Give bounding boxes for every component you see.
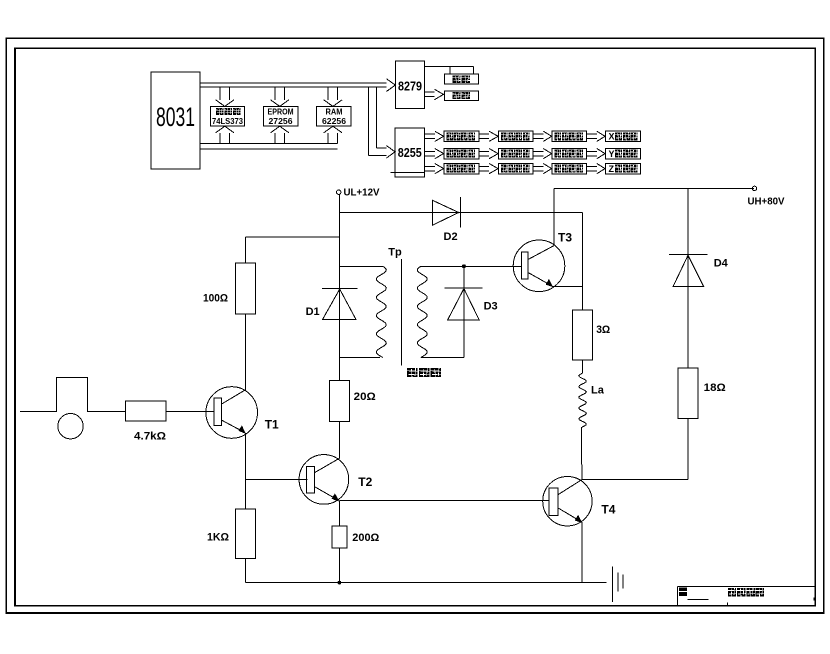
arrow to next box (X row col 1) — [479, 131, 498, 141]
transformer Tp secondary winding — [417, 266, 427, 357]
svg-text:La: La — [591, 385, 605, 397]
arrow 8255 to opto-isolator (Z row) — [425, 164, 444, 174]
svg-text:UL+12V: UL+12V — [344, 187, 380, 199]
transformer core — [401, 259, 403, 365]
arrow to next box (Y row col 1) — [479, 149, 498, 159]
arrow 8255 to opto-isolator (X row) — [425, 131, 444, 141]
wire 3ohm to La — [582, 360, 584, 373]
axis drive box (Z row) — [605, 163, 640, 174]
resistor 3ohm — [573, 310, 611, 360]
resistor 20ohm — [329, 381, 375, 422]
bus branch up-arrow 1 — [216, 126, 234, 143]
terminal UH+80V — [748, 186, 785, 207]
address bus lower (double line) — [200, 144, 338, 149]
node junction dot D3 — [462, 265, 465, 268]
resistor 200ohm — [332, 526, 379, 548]
keyboard box (jianpan) — [444, 91, 478, 100]
wire bottom rail — [245, 582, 606, 584]
svg-text:T1: T1 — [265, 418, 279, 432]
wire T3 emitter — [552, 285, 582, 287]
svg-text:T2: T2 — [358, 475, 372, 489]
terminal UL+12V — [337, 187, 380, 199]
wire 100ohm to T1 collector — [244, 314, 246, 390]
node junction on bottom rail — [338, 581, 341, 584]
wire T3 collector up — [553, 188, 555, 245]
bus branch down-arrow 1 — [216, 87, 234, 106]
svg-text:X: X — [609, 132, 615, 142]
wire junction to 18ohm branch — [583, 479, 688, 481]
svg-text:74LS373: 74LS373 — [212, 116, 243, 126]
input source circle — [58, 414, 83, 439]
title block border — [677, 586, 815, 605]
ground symbol — [613, 566, 623, 602]
driver circuit box (Z row) — [498, 163, 533, 173]
svg-text:EPROM: EPROM — [268, 107, 294, 117]
latch box 74LS373 — [210, 106, 244, 126]
wire T4 emitter down — [581, 522, 583, 583]
parallel interface 8255 — [391, 128, 425, 177]
transformer label (bianyaqi) — [407, 368, 441, 377]
svg-text:200Ω: 200Ω — [352, 532, 379, 544]
wire 18ohm to junction — [687, 418, 689, 479]
transistor T1 — [206, 387, 279, 439]
transformer Tp primary winding — [376, 247, 402, 358]
arrow to next box (Y row col 3) — [587, 149, 606, 159]
opto-isolator box (X row) — [444, 131, 479, 141]
bus arrowhead into 8279 — [387, 79, 396, 92]
arrow to next box (Z row col 3) — [587, 164, 606, 174]
svg-text:8031: 8031 — [156, 102, 195, 132]
svg-text:Y: Y — [609, 149, 615, 159]
bus branch down-arrow 2 — [271, 87, 289, 106]
title block small labels — [679, 587, 814, 605]
EPROM box 27256 — [263, 106, 298, 126]
resistor 4.7kohm — [125, 401, 166, 442]
arrow to next box (Z row col 2) — [533, 164, 552, 174]
bus arrowhead into 8255 — [387, 146, 396, 158]
svg-text:Tp: Tp — [388, 247, 402, 259]
display box (xianshi) — [444, 74, 478, 84]
opto-isolator box (Z row) — [444, 163, 479, 173]
svg-text:D2: D2 — [444, 231, 458, 243]
wire T1 emitter down — [244, 433, 246, 480]
stepper motor box (Y row) — [552, 148, 587, 158]
keyboard/display controller 8279 — [396, 61, 425, 109]
svg-text:3Ω: 3Ω — [596, 324, 610, 336]
wire D4 vertical — [687, 188, 689, 368]
svg-text:UH+80V: UH+80V — [748, 196, 785, 208]
wire 4.7k to T1 base — [166, 411, 214, 413]
svg-text:20Ω: 20Ω — [354, 391, 376, 403]
svg-text:100Ω: 100Ω — [203, 293, 228, 305]
svg-text:D4: D4 — [714, 258, 729, 270]
stepper motor box (X row) — [552, 131, 587, 141]
wire 8279 to display box — [424, 66, 473, 74]
arrow 8255 to opto-isolator (Y row) — [425, 149, 444, 159]
opto-isolator box (Y row) — [444, 148, 479, 158]
bus branch up-arrow 2 — [271, 126, 289, 143]
wire 1K to bottom rail — [244, 559, 246, 583]
transistor T3 — [513, 231, 572, 292]
wire La to T4 collector — [581, 427, 582, 480]
svg-text:T4: T4 — [601, 503, 615, 517]
wire T1 emitter to T2 base — [245, 478, 307, 480]
resistor 100ohm — [203, 263, 255, 314]
arrow to next box (X row col 2) — [533, 131, 552, 141]
wire top rail to UH+80V — [554, 187, 754, 189]
inductor La — [579, 373, 605, 427]
driver circuit box (X row) — [498, 131, 533, 141]
diode D3 — [444, 266, 497, 357]
svg-text:8255: 8255 — [398, 145, 422, 160]
wire 200ohm to bottom rail — [338, 548, 340, 583]
arrow to next box (Y row col 2) — [533, 149, 552, 159]
bus branch to 8255 (double line) — [368, 87, 386, 155]
transistor T2 — [299, 455, 373, 505]
diode D2 — [433, 197, 461, 243]
wire main vertical from UL+12V — [339, 194, 341, 380]
arrow to next box (Z row col 1) — [479, 164, 498, 174]
svg-text:27256: 27256 — [269, 116, 293, 126]
wire T2 emitter down — [338, 501, 340, 526]
svg-text:8279: 8279 — [398, 79, 422, 94]
diode D1 — [306, 289, 358, 320]
CPU block 8031 — [151, 72, 200, 169]
wire primary bottom lead — [340, 357, 381, 359]
wire 20ohm to T2 collector — [338, 422, 340, 459]
arrow to next box (X row col 3) — [587, 131, 606, 141]
axis drive box (Y row) — [605, 148, 640, 159]
wire secondary top lead to T3 base — [421, 265, 522, 267]
svg-text:RAM: RAM — [326, 107, 343, 117]
input pulse symbol — [20, 377, 125, 411]
axis drive box (X row) — [605, 131, 640, 142]
svg-text:T3: T3 — [558, 231, 572, 245]
RAM box 62256 — [317, 106, 352, 126]
svg-text:D3: D3 — [484, 301, 498, 313]
driver circuit box (Y row) — [498, 148, 533, 158]
title text (qudong dianlu) — [728, 588, 764, 597]
resistor 1Kohm — [207, 509, 255, 559]
svg-text:62256: 62256 — [322, 116, 346, 126]
svg-text:D1: D1 — [306, 306, 320, 318]
data bus to 8279 (double line) — [200, 83, 387, 87]
svg-text:4.7kΩ: 4.7kΩ — [134, 431, 166, 443]
wire UL to D2 line — [340, 212, 583, 214]
stepper motor box (Z row) — [552, 163, 587, 173]
wire link to 100ohm resistor — [245, 237, 339, 263]
wire right chain vertical — [582, 213, 584, 311]
svg-text:1KΩ: 1KΩ — [207, 532, 229, 544]
resistor 18ohm — [678, 368, 726, 418]
wire down to 1K resistor — [244, 479, 246, 509]
transistor T4 — [543, 477, 616, 526]
bus branch down-arrow 3 — [324, 87, 342, 106]
svg-text:Z: Z — [609, 164, 615, 174]
wire primary top lead — [340, 265, 383, 267]
arrow 8279 to keyboard box — [424, 89, 443, 100]
wire secondary bottom lead — [421, 356, 464, 358]
bus branch up-arrow 3 — [324, 126, 342, 143]
diode D4 — [669, 255, 729, 287]
svg-text:18Ω: 18Ω — [704, 382, 726, 394]
wire T2 emitter to T4 base — [339, 500, 549, 502]
